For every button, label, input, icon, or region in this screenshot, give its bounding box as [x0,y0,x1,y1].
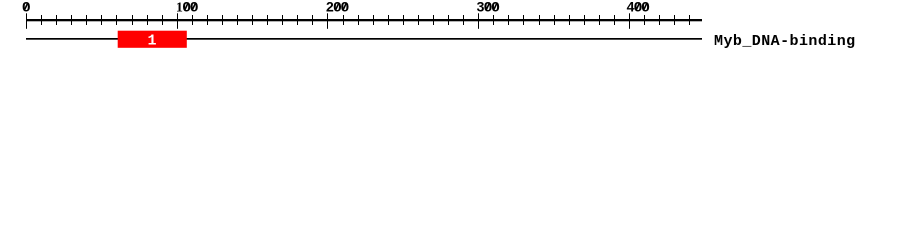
ruler minor tick 30 [71,15,72,25]
ruler minor tick 170 [282,15,283,25]
ruler minor tick 50 [101,15,102,25]
ruler minor tick 80 [147,15,148,25]
ruler minor tick 390 [614,15,615,25]
ruler minor tick 360 [569,15,570,25]
ruler minor tick 260 [418,15,419,25]
ruler minor tick 60 [116,15,117,25]
ruler minor tick 240 [388,15,389,25]
ruler minor tick 330 [523,15,524,25]
ruler label 100 [176,0,199,15]
ruler label 200 [326,0,349,15]
ruler minor tick 190 [312,15,313,25]
ruler minor tick 20 [56,15,57,25]
ruler minor tick 270 [433,15,434,25]
ruler label 0 [22,0,31,15]
sequence line [26,38,702,40]
ruler minor tick 410 [644,15,645,25]
ruler minor tick 10 [41,15,42,25]
ruler major tick 0 [26,13,27,28]
ruler minor tick 430 [674,15,675,25]
ruler axis line [26,19,702,21]
ruler minor tick 350 [554,15,555,25]
ruler major tick 200 [327,13,328,28]
ruler minor tick 420 [659,15,660,25]
ruler minor tick 220 [358,15,359,25]
ruler minor tick 120 [207,15,208,25]
ruler minor tick 160 [267,15,268,25]
ruler minor tick 250 [403,15,404,25]
ruler minor tick 370 [584,15,585,25]
ruler minor tick 70 [132,15,133,25]
ruler major tick 400 [629,13,630,28]
ruler minor tick 180 [297,15,298,25]
ruler minor tick 150 [252,15,253,25]
ruler minor tick 280 [448,15,449,25]
ruler minor tick 340 [539,15,540,25]
ruler minor tick 90 [162,15,163,25]
domain box 1 (Myb_DNA-binding, red) [118,31,187,48]
svg-text:1: 1 [147,33,156,50]
ruler minor tick 290 [463,15,464,25]
ruler major tick 100 [177,13,178,28]
ruler minor tick 230 [373,15,374,25]
ruler minor tick 440 [689,15,690,25]
ruler minor tick 320 [508,15,509,25]
ruler minor tick 40 [86,15,87,25]
ruler major tick 300 [478,13,479,28]
ruler minor tick 140 [237,15,238,25]
ruler minor tick 310 [493,15,494,25]
ruler minor tick 380 [599,15,600,25]
ruler minor tick 130 [222,15,223,25]
svg-text:Myb_DNA-binding: Myb_DNA-binding [714,33,856,50]
ruler label 400 [627,0,650,15]
ruler minor tick 110 [192,15,193,25]
ruler label 300 [477,0,500,15]
ruler minor tick 210 [343,15,344,25]
